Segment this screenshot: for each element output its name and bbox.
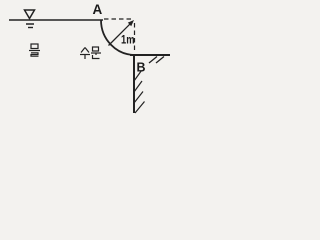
water surface line bbox=[9, 19, 103, 21]
svg-text:1m: 1m bbox=[121, 33, 135, 47]
tick mark 2 under wall line bbox=[156, 57, 164, 64]
dashed vertical radius line bbox=[134, 23, 136, 52]
dashed horizontal radius line bbox=[104, 18, 133, 20]
wall hatch 4 bbox=[135, 102, 145, 114]
svg-text:A: A bbox=[93, 2, 103, 17]
wall top line at B bbox=[130, 54, 170, 56]
wall hatch 2 bbox=[134, 81, 142, 92]
radius arrow bbox=[109, 22, 133, 46]
free-surface symbol (inverted triangle) bbox=[25, 10, 35, 19]
wall hatch 3 bbox=[134, 92, 143, 104]
wall vertical line bbox=[133, 55, 135, 113]
free-surface tick 2 bbox=[28, 27, 33, 29]
tick mark 1 under wall line bbox=[149, 57, 157, 64]
svg-text:B: B bbox=[137, 61, 146, 75]
wall hatch 1 bbox=[134, 71, 142, 82]
quarter-circle gate arc bbox=[101, 20, 135, 55]
free-surface tick 1 bbox=[26, 23, 34, 25]
label 물 (water), hand-drawn strokes bbox=[29, 44, 40, 56]
label 수문 (gate), hand-drawn strokes bbox=[80, 47, 101, 59]
